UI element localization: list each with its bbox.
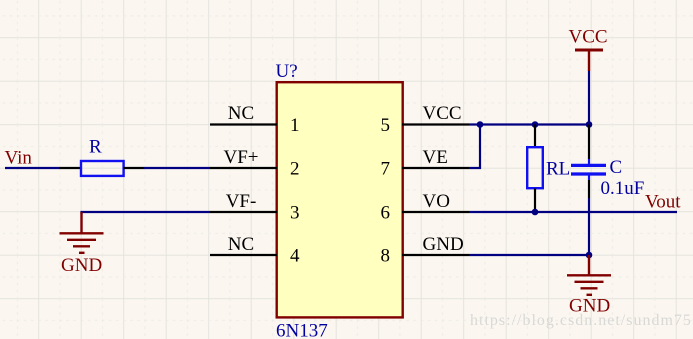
resistor RL label xyxy=(546,159,570,180)
pin 7 number xyxy=(381,158,391,179)
svg-text:VF-: VF- xyxy=(226,191,257,212)
resistor R right pin xyxy=(124,167,144,169)
svg-text:VCC: VCC xyxy=(569,27,608,48)
pin 5 wire xyxy=(402,123,469,125)
wire VCC to rail xyxy=(588,71,590,125)
power port VCC xyxy=(569,27,608,72)
capacitor C label xyxy=(610,157,623,178)
svg-text:VE: VE xyxy=(423,147,448,168)
junction RL/VCC xyxy=(532,121,539,128)
svg-text:NC: NC xyxy=(228,234,254,255)
pin 1 wire xyxy=(210,123,277,125)
junction C/GND xyxy=(586,252,593,259)
svg-text:1: 1 xyxy=(290,115,300,136)
resistor RL bottom pin xyxy=(534,189,536,213)
svg-text:VCC: VCC xyxy=(423,103,462,124)
pin 6 wire xyxy=(402,211,469,213)
junction C/VCC xyxy=(586,121,593,128)
ground GND left xyxy=(60,212,104,253)
svg-text:2: 2 xyxy=(290,158,300,179)
pin 4 label NC xyxy=(228,234,254,255)
capacitor C value 0.1uF xyxy=(601,178,645,199)
pin 8 label GND xyxy=(423,234,464,255)
net label Vin xyxy=(5,148,33,169)
wire R to pin 2 xyxy=(144,167,210,169)
wire GND rail xyxy=(469,254,589,256)
pin 3 wire xyxy=(210,211,277,213)
ground GND right label xyxy=(569,296,610,317)
svg-text:R: R xyxy=(89,137,102,158)
pin 2 wire xyxy=(210,167,277,169)
pin 6 number xyxy=(381,202,391,223)
svg-text:Vin: Vin xyxy=(5,148,33,169)
wire VCC rail xyxy=(469,123,589,125)
pin 7 wire xyxy=(402,167,469,169)
IC value 6N137 xyxy=(276,321,328,339)
svg-text:7: 7 xyxy=(381,158,391,179)
svg-text:GND: GND xyxy=(61,255,102,276)
resistor RL xyxy=(527,147,543,188)
svg-text:8: 8 xyxy=(381,245,391,266)
pin 2 label VF+ xyxy=(223,147,258,168)
wire Vin to R xyxy=(5,167,59,169)
pin 1 number xyxy=(290,115,300,136)
svg-text:4: 4 xyxy=(290,245,300,266)
pin 1 label NC xyxy=(228,103,254,124)
pin 7 label VE xyxy=(423,147,448,168)
capacitor C bottom pin xyxy=(588,180,590,198)
pin 8 number xyxy=(381,245,391,266)
svg-text:0.1uF: 0.1uF xyxy=(601,178,645,199)
resistor RL top pin xyxy=(534,125,536,148)
svg-text:U?: U? xyxy=(276,61,298,82)
svg-text:GND: GND xyxy=(569,296,610,317)
pin 6 label VO xyxy=(423,191,450,212)
pin 5 number xyxy=(381,115,391,136)
wire VO to Vout xyxy=(469,211,677,213)
wire C to GND rail xyxy=(588,198,590,255)
ground GND left label xyxy=(61,255,102,276)
svg-text:Vout: Vout xyxy=(645,192,681,213)
ground GND right xyxy=(567,255,611,295)
capacitor C xyxy=(571,159,606,180)
svg-text:NC: NC xyxy=(228,103,254,124)
net label Vout xyxy=(645,192,681,213)
svg-text:VO: VO xyxy=(423,191,450,212)
svg-text:3: 3 xyxy=(290,202,300,223)
pin 3 label VF- xyxy=(226,191,257,212)
junction RL/VO xyxy=(532,209,539,216)
svg-text:GND: GND xyxy=(423,234,464,255)
pin 2 number xyxy=(290,158,300,179)
svg-text:VF+: VF+ xyxy=(223,147,258,168)
IC U1 6N137 body xyxy=(277,82,403,317)
svg-text:6N137: 6N137 xyxy=(276,321,328,339)
pin 5 label VCC xyxy=(423,103,462,124)
junction VE/VCC xyxy=(477,121,484,128)
resistor R label xyxy=(89,137,102,158)
pin 8 wire xyxy=(402,254,469,256)
resistor R xyxy=(81,161,124,176)
capacitor C top pin xyxy=(588,125,590,160)
pin 3 number xyxy=(290,202,300,223)
wire VE branch xyxy=(469,125,480,169)
svg-text:5: 5 xyxy=(381,115,391,136)
pin 4 number xyxy=(290,245,300,266)
svg-text:6: 6 xyxy=(381,202,391,223)
svg-text:C: C xyxy=(610,157,623,178)
pin 4 wire xyxy=(210,254,277,256)
wire VF- to ground xyxy=(82,212,211,214)
watermark text xyxy=(470,312,692,329)
IC designator U? xyxy=(276,61,298,82)
resistor R left pin xyxy=(59,167,81,169)
svg-text:RL: RL xyxy=(546,159,570,180)
